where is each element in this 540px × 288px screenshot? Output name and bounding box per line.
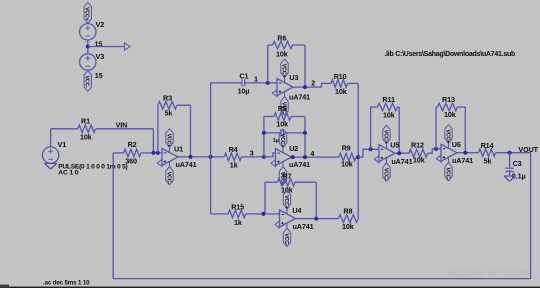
- wire into R13: [436, 106, 438, 108]
- wire R11 left vertical: [370, 107, 372, 149]
- op-amp U3 net flag VCC-: [280, 97, 288, 116]
- junction vertical bus at U1 output: [209, 155, 213, 159]
- wire U6 output to R14: [457, 152, 479, 154]
- junction R3 at U1 input: [156, 151, 160, 155]
- wire vertical bus R10 to R8: [357, 83, 359, 218]
- wire R14 to VOUT: [496, 152, 531, 154]
- wire top to C1: [211, 82, 242, 84]
- svg-text:R10: R10: [334, 72, 347, 81]
- capacitor C1: [242, 79, 245, 86]
- wire R13 right vertical: [464, 107, 466, 153]
- wire R13 right: [458, 106, 466, 108]
- voltage source V2 net flag VCC+: [84, 2, 92, 23]
- svg-text:360: 360: [125, 157, 137, 166]
- svg-text:1µ: 1µ: [273, 138, 279, 144]
- wire VIN: [96, 128, 154, 130]
- junction R11 at U5 input: [369, 147, 373, 151]
- svg-text:U3: U3: [289, 73, 298, 82]
- svg-text:VOUT: VOUT: [518, 145, 538, 154]
- wire U4 output to R8: [296, 218, 339, 220]
- resistor R7: [278, 178, 296, 186]
- svg-text:R15: R15: [231, 202, 244, 211]
- op-amp U3 net flag VCC+: [280, 59, 288, 78]
- svg-text:VCC-: VCC-: [382, 168, 388, 181]
- wire V2 to V3: [87, 40, 89, 54]
- capacitor C3: [505, 168, 514, 172]
- svg-text:1k: 1k: [234, 218, 242, 227]
- op-amp U5 net flag VCC-: [382, 163, 390, 182]
- svg-text:R6: R6: [277, 34, 286, 43]
- svg-text:1k: 1k: [230, 160, 238, 169]
- resistor R10: [331, 80, 348, 88]
- wire R15 to U4 input: [246, 213, 280, 215]
- wire to ground flag: [88, 46, 125, 48]
- wire R6 right vertical: [304, 45, 306, 87]
- op-amp U3: [272, 78, 293, 97]
- svg-text:R9: R9: [342, 144, 351, 153]
- svg-text:VCC+: VCC+: [382, 130, 388, 144]
- svg-text:VCC+: VCC+: [84, 7, 90, 21]
- svg-text:R4: R4: [229, 145, 238, 154]
- svg-text:R8: R8: [343, 207, 352, 216]
- wire into R5: [264, 116, 274, 118]
- wire R6 right: [293, 44, 306, 46]
- svg-text:10k: 10k: [444, 110, 456, 119]
- svg-text:R11: R11: [382, 95, 395, 104]
- svg-text:U5: U5: [390, 140, 399, 149]
- resistor R2: [124, 149, 141, 157]
- svg-text:V2: V2: [96, 20, 105, 29]
- wire into R2: [113, 152, 124, 154]
- junction bus at R9: [356, 155, 360, 159]
- svg-text:VCC+: VCC+: [444, 129, 450, 143]
- svg-text:uA741: uA741: [391, 157, 412, 166]
- svg-text:U6: U6: [452, 140, 461, 149]
- svg-text:.lib C:\Users\Sahag\Downloads\: .lib C:\Users\Sahag\Downloads\uA741.sub: [384, 51, 515, 58]
- resistor R12: [409, 149, 428, 157]
- wire VOUT to C3: [509, 153, 511, 169]
- svg-text:VIN: VIN: [116, 120, 128, 129]
- svg-text:R7: R7: [282, 172, 291, 181]
- voltage source V3 net flag VCC-: [84, 70, 92, 91]
- junction VOUT: [508, 151, 512, 155]
- wire R10 to bus: [348, 82, 359, 84]
- op-amp U6 net flag VCC+: [444, 125, 452, 144]
- op-amp U5 net flag VCC+: [382, 125, 390, 144]
- wire U2 output to R9: [292, 156, 340, 158]
- junction R13 at U6 output: [463, 151, 467, 155]
- junction C2 right: [303, 131, 307, 135]
- wire R3 right: [177, 104, 191, 106]
- resistor R6: [273, 41, 293, 49]
- ground under C3: [504, 176, 515, 181]
- svg-text:VCC-: VCC-: [165, 172, 171, 185]
- svg-text:2: 2: [311, 78, 315, 87]
- svg-text:C1: C1: [239, 72, 248, 81]
- op-amp U2: [271, 148, 292, 167]
- svg-text:R3: R3: [163, 93, 172, 102]
- wire bottom bus: [113, 278, 530, 280]
- wire R7 right: [295, 181, 316, 183]
- junction R7 at U4 input: [261, 212, 265, 216]
- wire R4 to node: [241, 156, 264, 158]
- wire into C2: [264, 132, 281, 134]
- wire U5 output to R12: [395, 152, 409, 154]
- svg-text:VCC-: VCC-: [84, 76, 90, 89]
- svg-text:1: 1: [254, 74, 258, 83]
- svg-text:AC 1 0: AC 1 0: [58, 170, 79, 177]
- svg-text:VCC-: VCC-: [283, 233, 289, 246]
- svg-text:U2: U2: [289, 144, 298, 153]
- voltage source V3: [80, 54, 96, 70]
- wire right bus vertical: [530, 153, 532, 279]
- svg-text:R14: R14: [481, 141, 494, 150]
- svg-text:uA741: uA741: [176, 160, 197, 169]
- svg-text:10k: 10k: [335, 87, 347, 96]
- resistor R5: [274, 113, 291, 121]
- svg-text:R1: R1: [81, 117, 90, 126]
- wire R3 right vertical: [190, 105, 192, 157]
- capacitor C2: [281, 129, 284, 136]
- resistor R4: [224, 153, 241, 161]
- svg-text:uA741: uA741: [452, 156, 473, 165]
- wire R7 right vertical: [315, 182, 317, 218]
- svg-text:5k: 5k: [484, 156, 492, 165]
- wire into R7: [265, 181, 278, 183]
- svg-text:VCC-: VCC-: [444, 168, 450, 181]
- wire R13 left vertical: [435, 107, 437, 149]
- junction R5 at U2 output: [303, 155, 307, 159]
- wire into R6: [268, 44, 273, 46]
- op-amp U1: [157, 147, 178, 166]
- op-amp U5: [374, 144, 395, 163]
- svg-text:10k: 10k: [341, 160, 353, 169]
- op-amp U1 net flag VCC+: [165, 129, 173, 148]
- resistor R8: [339, 215, 359, 223]
- svg-text:10k: 10k: [342, 222, 354, 231]
- wire R6 left vertical: [267, 45, 269, 83]
- wire R5 left vertical: [263, 117, 265, 157]
- svg-text:4: 4: [310, 149, 314, 158]
- svg-text:uA741: uA741: [289, 160, 310, 169]
- svg-text:R5: R5: [278, 104, 287, 113]
- op-amp U4 net flag VCC-: [283, 228, 291, 247]
- wire U3 output: [293, 86, 322, 88]
- junction R13 at U6 input: [434, 147, 438, 151]
- op-amp U6: [436, 143, 457, 162]
- wire step up to R10: [322, 83, 332, 87]
- op-amp U2 net flag VCC+: [279, 129, 287, 148]
- resistor R1: [78, 125, 96, 133]
- ground net flag 0: [124, 43, 130, 50]
- svg-text:uA741: uA741: [289, 93, 310, 102]
- resistor R9: [339, 153, 356, 161]
- wire jog into U2 input: [264, 153, 276, 157]
- svg-text:VCC+: VCC+: [280, 64, 286, 78]
- wire C3 to ground: [509, 171, 511, 176]
- wire jog bus to U5 input: [358, 149, 379, 157]
- svg-text:5k: 5k: [165, 109, 173, 118]
- junction VIN at U1 input: [151, 151, 155, 155]
- junction U3 input: [266, 81, 270, 85]
- op-amp U1 net flag VCC-: [165, 166, 173, 185]
- wire R11 right vertical: [398, 107, 400, 153]
- wire R3 left vertical: [157, 105, 159, 153]
- svg-text:15: 15: [95, 71, 103, 80]
- junction at U2 input branch: [262, 155, 266, 159]
- wire C2 right: [283, 132, 305, 134]
- voltage source V1: [42, 147, 58, 163]
- wire jog R12 to U6 input: [428, 149, 441, 153]
- junction at U2 output: [291, 155, 295, 159]
- svg-text:10k: 10k: [276, 50, 288, 59]
- resistor R11: [378, 103, 398, 111]
- svg-text:VCC+: VCC+: [283, 195, 289, 209]
- wire VIN down to U1 input: [152, 129, 154, 153]
- svg-text:U4: U4: [292, 206, 301, 215]
- svg-text:C3: C3: [513, 159, 522, 168]
- svg-text:15: 15: [95, 40, 103, 49]
- node between V2 and V3: [86, 45, 90, 49]
- wire into R11: [371, 106, 378, 108]
- wire R5 right vertical: [304, 117, 306, 158]
- svg-text:VCC+: VCC+: [165, 134, 171, 148]
- resistor R14: [479, 149, 496, 157]
- op-amp U4 net flag VCC+: [283, 191, 291, 210]
- junction R11 at U5 output: [397, 151, 401, 155]
- svg-text:R12: R12: [411, 141, 424, 150]
- op-amp U2 net flag VCC-: [279, 167, 287, 186]
- svg-text:uA741: uA741: [293, 222, 314, 231]
- svg-text:10µ: 10µ: [238, 86, 250, 95]
- wire V1 to R1: [50, 129, 52, 147]
- junction R7 at U4 output: [314, 217, 318, 221]
- junction R6 at U3 output: [303, 85, 307, 89]
- wire U1 output to R4: [178, 156, 224, 158]
- svg-text:10k: 10k: [413, 155, 425, 164]
- wire R7 left vertical: [264, 182, 266, 214]
- wire R2 left vertical to bottom bus: [112, 153, 114, 279]
- svg-text:Activate Windows: Activate Windows: [447, 267, 530, 279]
- wire C1 to U3 input: [245, 82, 277, 84]
- svg-text:10k: 10k: [276, 119, 288, 128]
- wire R15 lead: [211, 213, 229, 215]
- wire V1 top to R1 left: [51, 128, 78, 130]
- resistor R15: [228, 210, 246, 218]
- svg-text:.ac dec 5ms 1 10: .ac dec 5ms 1 10: [43, 280, 90, 287]
- wire left vertical from U1 output to R15: [210, 83, 212, 214]
- op-amp U6 net flag VCC-: [444, 162, 452, 181]
- ground under V1: [44, 163, 56, 169]
- resistor R13: [438, 103, 458, 111]
- wire R11 right: [398, 106, 400, 108]
- wire R5 right: [291, 116, 305, 118]
- wire R2 to U1 input: [141, 152, 162, 154]
- wire R9 to bus node: [356, 156, 358, 158]
- svg-text:R2: R2: [128, 140, 137, 149]
- svg-text:VCC+: VCC+: [279, 134, 285, 148]
- svg-text:V1: V1: [58, 140, 67, 149]
- svg-text:U1: U1: [174, 144, 183, 153]
- junction R3 at U1 output: [189, 155, 193, 159]
- svg-text:R13: R13: [442, 95, 455, 104]
- svg-text:V3: V3: [96, 52, 105, 61]
- resistor R3: [158, 101, 177, 109]
- svg-text:10k: 10k: [80, 132, 92, 141]
- junction C2 left: [262, 131, 266, 135]
- voltage source V2: [80, 24, 96, 40]
- svg-text:10k: 10k: [383, 110, 395, 119]
- op-amp U4: [275, 209, 296, 228]
- bottom screen edge: [0, 287, 540, 288]
